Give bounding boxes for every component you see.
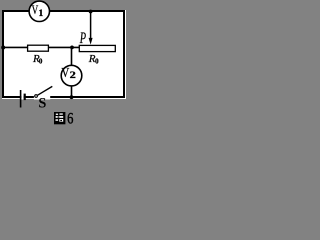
svg-text:1: 1 — [39, 8, 44, 18]
svg-text:P: P — [79, 30, 86, 47]
svg-text:6: 6 — [67, 111, 73, 128]
svg-text:2: 2 — [70, 71, 77, 81]
svg-text:S: S — [38, 96, 46, 112]
svg-text:0: 0 — [39, 58, 43, 66]
svg-text:0: 0 — [95, 58, 99, 66]
svg-text:V: V — [61, 66, 69, 81]
